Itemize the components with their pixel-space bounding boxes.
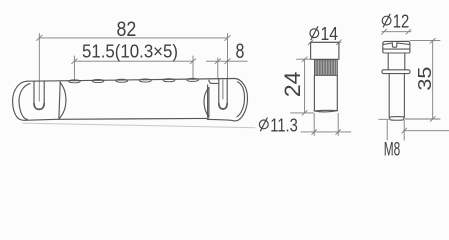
extension line right (through hole 6) <box>192 56 194 80</box>
dim dia11.3 <box>301 114 351 136</box>
hole 6 <box>187 78 199 81</box>
right slot bottom arc <box>219 104 227 110</box>
svg-text:11.3: 11.3 <box>270 114 298 135</box>
extension lines down from body bottom <box>313 114 315 136</box>
top extension (flange bottom extended) <box>297 58 311 60</box>
svg-text:24: 24 <box>280 72 305 98</box>
svg-text:35: 35 <box>414 67 435 91</box>
dim 24 (vertical, left of bushing) <box>291 57 314 115</box>
right slot wall right <box>226 79 228 104</box>
bottom extension <box>291 112 314 114</box>
right boss inner arc <box>237 82 245 117</box>
hole 5 <box>163 79 175 82</box>
left slot wall right <box>43 81 45 104</box>
dim line 8 <box>206 58 247 79</box>
svg-text:M8: M8 <box>384 140 401 161</box>
right slot center line <box>222 80 224 99</box>
extension line left (into left slot) <box>38 34 40 102</box>
bar top edge <box>61 79 235 81</box>
faint page shadow line under tailpiece <box>23 123 255 128</box>
right boss shoulder <box>209 80 218 83</box>
head top dome <box>383 41 410 43</box>
head mid line <box>383 48 410 50</box>
top extension from head top <box>410 40 440 42</box>
bar right end cap arc <box>204 88 209 118</box>
head slot left chamfer <box>383 43 392 45</box>
bottom cap lens <box>314 109 337 112</box>
string holes <box>69 78 199 82</box>
bar left end cap arc <box>59 83 66 119</box>
svg-text:82: 82 <box>117 17 137 41</box>
head bottom edge <box>383 52 410 53</box>
left slot bottom arc <box>34 104 44 110</box>
shaft <box>388 74 390 117</box>
label dia12 <box>382 11 409 32</box>
shaft bottom cap <box>389 117 404 121</box>
right boss front edge <box>208 85 210 119</box>
neck <box>387 53 389 70</box>
left slot wall left <box>33 81 35 103</box>
bottom extension from shaft bottom <box>405 118 440 120</box>
left stub of bottom extension <box>379 118 389 120</box>
right boss outer outline <box>207 79 247 121</box>
tailpiece body <box>13 79 248 121</box>
dim 35 (vertical, right of screw) <box>379 38 440 121</box>
dim line dia12 <box>382 29 412 34</box>
extension line left (through hole 1) <box>73 56 75 81</box>
bar left end cap edge <box>59 82 60 119</box>
dim line 51.5(10.3x5) <box>72 56 196 81</box>
hole 4 <box>139 79 151 82</box>
extension line right <box>227 34 229 79</box>
extension line (hook left wall) <box>217 58 219 79</box>
bushing knurl <box>315 60 338 76</box>
washer <box>382 70 410 74</box>
bushing body <box>314 75 337 112</box>
left boss outer outline <box>13 81 27 120</box>
bar bottom edge <box>25 118 207 120</box>
head slot <box>392 43 396 47</box>
dim M8 <box>387 121 449 141</box>
label dia11.3 <box>259 114 297 135</box>
label dia14 <box>310 23 338 44</box>
svg-text:14: 14 <box>321 23 339 44</box>
left boss inner arc <box>19 84 30 120</box>
dim line dia14 (on flange top) <box>308 40 341 45</box>
svg-text:51.5(10.3×5): 51.5(10.3×5) <box>82 41 178 61</box>
head slot right chamfer <box>397 43 410 45</box>
screw head <box>382 41 410 120</box>
hole 2 <box>92 80 104 83</box>
hole 3 <box>116 79 128 82</box>
bar right end cap edge <box>208 88 210 118</box>
right slot wall left <box>218 79 220 104</box>
svg-text:12: 12 <box>393 11 410 32</box>
left boss top edge <box>27 80 61 82</box>
dim line 82 <box>37 34 231 102</box>
svg-text:8: 8 <box>236 40 245 63</box>
hole 1 <box>69 80 81 83</box>
head sides <box>382 44 384 53</box>
bushing flange <box>311 42 339 59</box>
